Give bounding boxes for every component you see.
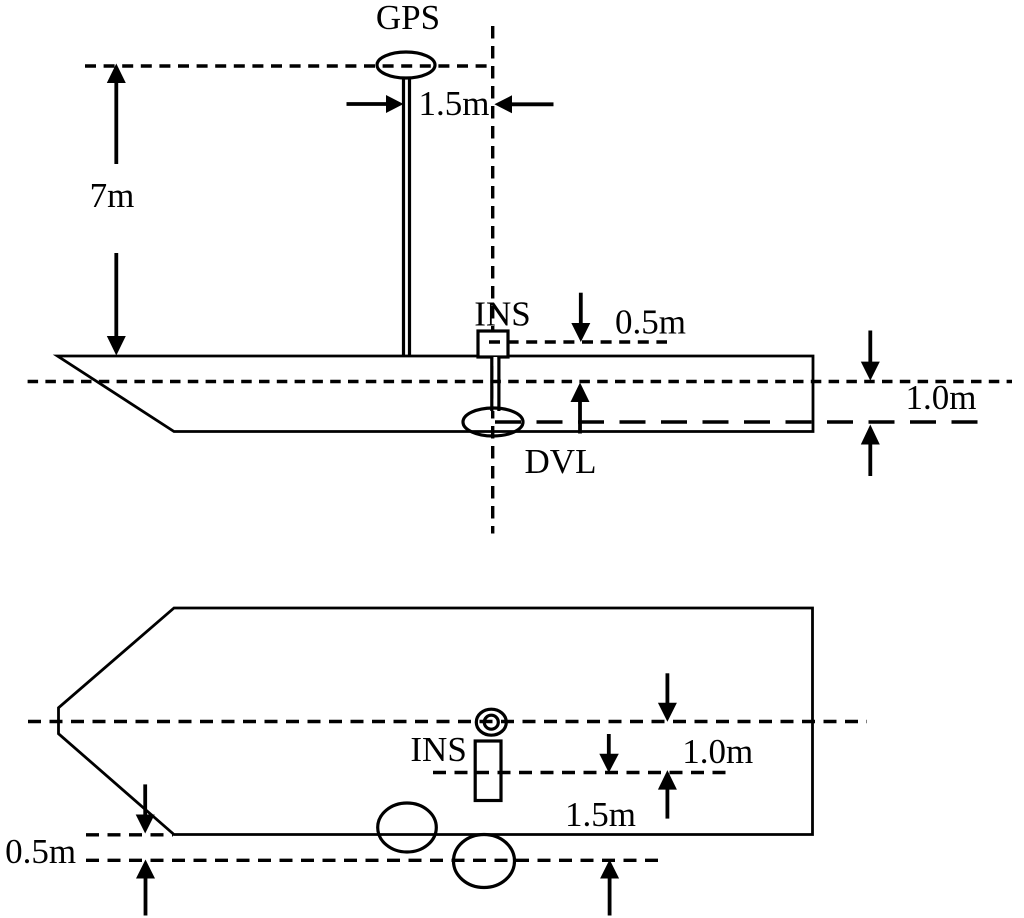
7m dimension up arrow [114, 82, 118, 164]
GPS mast top-view (double circle) [476, 709, 506, 735]
GPS antenna ellipse [377, 52, 435, 78]
up arrow (right, under 1.5m line) [608, 879, 612, 916]
waterline dense dashed line [28, 380, 1012, 383]
DVL transducer ellipse [463, 408, 523, 436]
svg-text:1.0m: 1.0m [682, 732, 753, 771]
svg-text:0.5m: 0.5m [615, 303, 686, 342]
vertical dashed centerline through INS/DVL [491, 26, 494, 534]
1.0m right down arrow [868, 331, 872, 363]
dashed line 0.5m outboard [86, 859, 666, 862]
DVL transducer circle 2 (top view) [454, 835, 515, 888]
svg-text:INS: INS [474, 295, 530, 334]
svg-text:INS: INS [410, 730, 466, 769]
hull side-view outline [58, 356, 814, 432]
0.5m up arrow (left) [144, 879, 148, 916]
1.0m inner up arrow [578, 402, 582, 434]
svg-text:7m: 7m [90, 176, 135, 215]
hull top-view outline [59, 608, 813, 835]
svg-text:GPS: GPS [376, 0, 440, 37]
1.5m down arrow to INS line [607, 734, 611, 754]
svg-text:DVL: DVL [525, 442, 597, 481]
0.5m down arrow [143, 784, 147, 815]
DVL transducer circle 1 (top view) [378, 803, 437, 852]
svg-text:1.0m: 1.0m [906, 378, 977, 417]
dashed reference line at GPS antenna height [85, 64, 493, 67]
1.5m left-pointing arrow [512, 102, 554, 106]
0.5m down arrow [579, 293, 583, 324]
GPS mast (double line) [402, 77, 405, 355]
1.0m right up arrow [868, 444, 872, 476]
1.0m down arrow to centerline [666, 673, 670, 703]
svg-text:1.5m: 1.5m [419, 84, 490, 123]
7m dimension down arrow [114, 253, 118, 337]
dashed extension of hull side at keel level [86, 833, 173, 836]
DVL stem below INS (double line, white core masks centerline) [493, 357, 497, 411]
1.0m up arrow to INS line [666, 790, 670, 819]
dashed line through INS box [433, 771, 727, 774]
keel long-dash line [495, 420, 987, 423]
svg-text:0.5m: 0.5m [5, 832, 76, 871]
INS box (side view) [478, 331, 508, 357]
INS box (top view) [475, 741, 501, 801]
svg-text:1.5m: 1.5m [565, 795, 636, 834]
1.5m right-pointing arrow [347, 102, 388, 106]
dashed fore-aft centerline [28, 720, 867, 723]
dashed leader from INS box to 0.5m arrow [489, 340, 667, 343]
